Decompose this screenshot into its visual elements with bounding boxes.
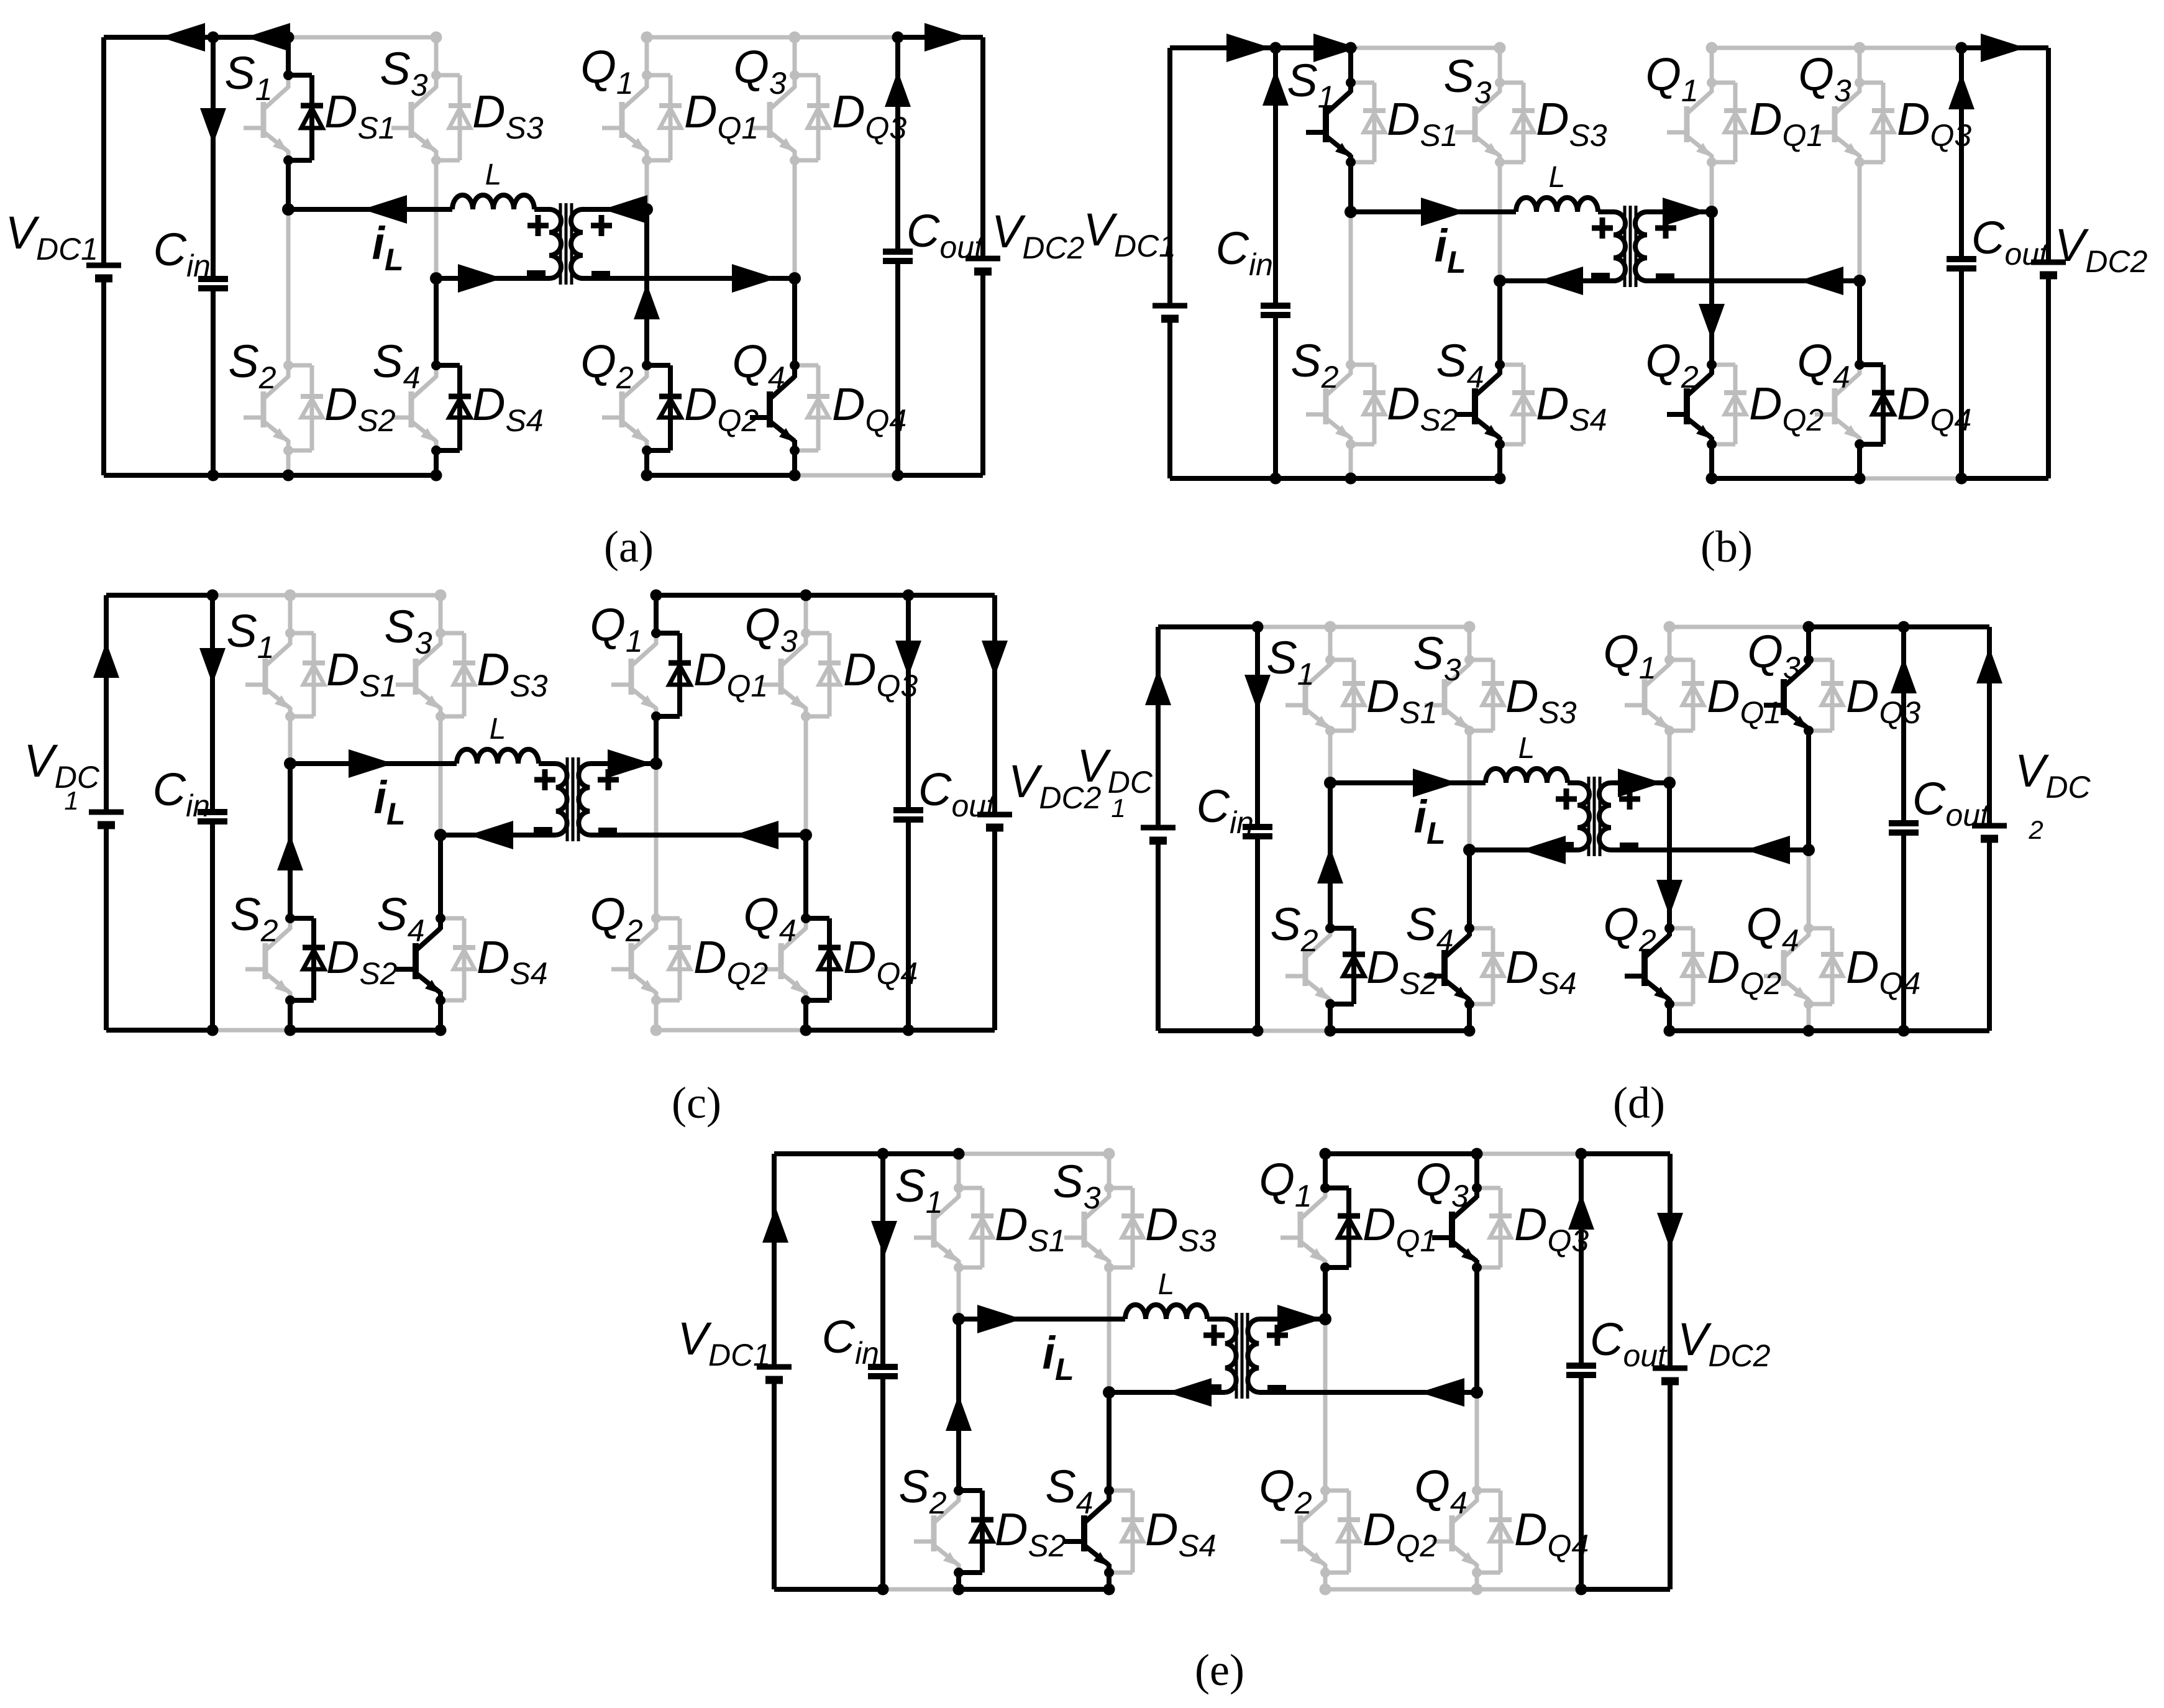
svg-text:(e): (e) bbox=[1195, 1645, 1244, 1695]
svg-text:L: L bbox=[490, 713, 506, 746]
svg-text:L: L bbox=[1518, 732, 1535, 765]
svg-text:1: 1 bbox=[1111, 793, 1125, 823]
svg-text:L: L bbox=[485, 158, 502, 191]
svg-text:1: 1 bbox=[64, 786, 78, 815]
svg-text:2: 2 bbox=[2028, 815, 2043, 844]
svg-text:(c): (c) bbox=[672, 1078, 721, 1128]
svg-text:(b): (b) bbox=[1701, 522, 1753, 572]
svg-text:(a): (a) bbox=[604, 522, 654, 572]
svg-text:(d): (d) bbox=[1613, 1078, 1665, 1128]
svg-text:L: L bbox=[1158, 1268, 1175, 1301]
svg-text:L: L bbox=[1549, 161, 1566, 194]
